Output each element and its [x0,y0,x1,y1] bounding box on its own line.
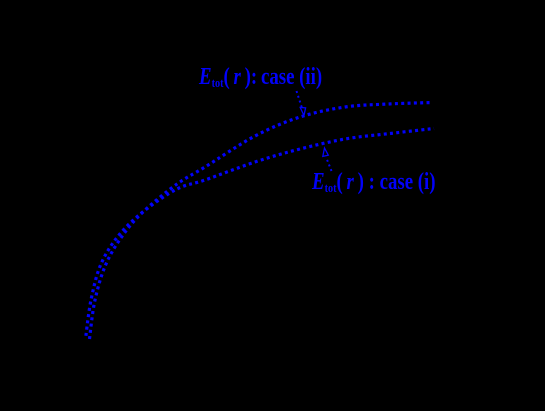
label: E_tot(r) : case (i) [312,169,436,196]
label: E_tot(r): case (ii) [199,64,322,91]
curve E_tot(r) case (ii) [90,103,433,340]
leader arrow for case (ii) label [297,91,303,108]
leader arrow for case (i) label [326,157,332,171]
curve E_tot(r) case (i) [86,129,435,340]
